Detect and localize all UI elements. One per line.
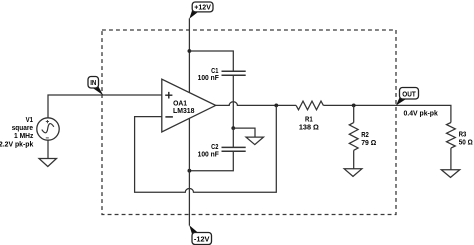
svg-text:OUT: OUT — [402, 91, 416, 98]
wire output rail with hop over C link — [216, 102, 296, 106]
wire +12V power pin — [188, 18, 190, 92]
junction node decoupling ground — [231, 126, 235, 130]
svg-text:C1: C1 — [211, 68, 218, 75]
ground decoupling — [246, 137, 264, 145]
wire V1 to ground — [47, 140, 49, 158]
capacitor C1 — [198, 68, 246, 82]
dashed boundary box — [102, 30, 396, 215]
svg-text:79 Ω: 79 Ω — [361, 140, 376, 147]
svg-text:LM318: LM318 — [173, 108, 195, 115]
wire +12V branch to C1 — [189, 51, 233, 71]
junction node rail-C1 branch — [188, 49, 192, 53]
svg-text:V1: V1 — [26, 117, 33, 124]
net flag OUT — [396, 88, 419, 106]
junction node C2 / -12V rail — [188, 169, 192, 173]
capacitor C2 — [198, 144, 246, 158]
svg-text:R1: R1 — [305, 116, 313, 123]
voltage source V1 — [0, 117, 59, 149]
svg-text:R3: R3 — [459, 132, 467, 139]
net flag +12V — [189, 2, 213, 19]
ground R3 — [441, 170, 459, 178]
wire R2 drop — [353, 105, 355, 122]
wire C1 to C2 vertical link — [232, 75, 234, 128]
resistor R1 — [296, 101, 323, 131]
svg-text:OA1: OA1 — [173, 100, 187, 107]
svg-text:50 Ω: 50 Ω — [459, 139, 473, 146]
svg-text:-12V: -12V — [194, 236, 210, 243]
svg-text:square: square — [12, 125, 33, 132]
wire R1 to OUT to R3 — [323, 105, 451, 122]
resistor R3 — [447, 123, 474, 149]
wire V1 to op-amp non-inverting input — [48, 95, 162, 118]
wire ground branch — [233, 128, 255, 137]
ground R2 — [344, 169, 362, 177]
wire feedback loop with hop over -12V rail — [135, 105, 277, 192]
junction node feedback tap — [274, 104, 278, 108]
op-amp OA1 LM318 — [162, 79, 216, 132]
ground V1 — [39, 159, 57, 167]
svg-text:1 MHz: 1 MHz — [14, 133, 34, 140]
svg-text:R2: R2 — [361, 132, 369, 139]
wire -12V power pin rail — [188, 118, 190, 225]
svg-text:IN: IN — [90, 80, 96, 87]
wire R3 to ground — [450, 148, 452, 170]
junction node R2 tap — [352, 104, 356, 108]
svg-text:2.2V pk-pk: 2.2V pk-pk — [0, 142, 33, 149]
svg-text:138 Ω: 138 Ω — [299, 125, 319, 132]
svg-text:100 nF: 100 nF — [198, 152, 220, 159]
svg-text:+12V: +12V — [194, 5, 211, 12]
net flag -12V — [189, 225, 211, 244]
net flag IN — [88, 77, 103, 96]
wire R2 to ground — [353, 150, 355, 169]
svg-text:0.4V pk-pk: 0.4V pk-pk — [404, 110, 438, 117]
svg-text:100 nF: 100 nF — [198, 75, 220, 82]
wire junction to C2 — [232, 128, 234, 147]
wire C2 return to negative rail — [189, 151, 233, 170]
resistor R2 — [349, 123, 376, 151]
svg-text:C2: C2 — [211, 144, 218, 151]
